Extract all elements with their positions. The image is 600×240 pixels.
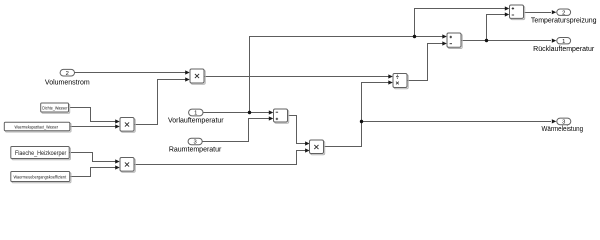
arrowhead into S1 in1 <box>269 110 274 114</box>
wire Flaeche_Heizkoerper to product P3 in1 <box>69 153 116 162</box>
svg-text:Flaeche_Heizkoerper: Flaeche_Heizkoerper <box>15 150 67 157</box>
junction node on Ruecklauf line <box>485 39 488 42</box>
wire Vorlauftemperatur to subtract S1 in1 <box>203 112 269 114</box>
svg-text:1: 1 <box>562 39 565 45</box>
wire product P1 out to product P2 in2 <box>134 80 186 125</box>
svg-text:3: 3 <box>562 120 565 126</box>
junction node on trunk line <box>413 35 416 38</box>
arrowhead into P4 in1 <box>305 141 310 145</box>
svg-text:Rücklauftemperatur: Rücklauftemperatur <box>533 46 595 53</box>
wire Dichte_Wasser to product P1 in1 <box>70 108 117 122</box>
arrowhead into P2 in2 <box>185 77 190 81</box>
outport 2 Temperaturspreizung <box>557 9 571 16</box>
arrowhead into S1 in2 <box>269 116 274 120</box>
svg-text:3: 3 <box>193 140 196 146</box>
wire product P2 out to divide D1 in1 <box>204 76 389 78</box>
svg-text:Vorlauftemperatur: Vorlauftemperatur <box>168 118 224 125</box>
inport 2 Volumenstrom <box>60 69 74 77</box>
subtract S1 (minus plus) <box>274 109 289 123</box>
wire subtract S1 out to product P4 in1 <box>288 116 306 144</box>
svg-text:Wärmeleistung: Wärmeleistung <box>542 126 584 133</box>
constant Dichte_Wasser <box>41 103 70 113</box>
arrowhead into P1 in1 <box>115 119 120 123</box>
arrowhead into P1 in2 <box>115 124 120 128</box>
product P4 (dT x kA) <box>310 140 325 155</box>
constant Flaeche_Heizkoerper <box>11 147 71 160</box>
arrowhead into S3 in2 <box>505 12 510 16</box>
wire Waermekapazitaet_Wasser to product P1 in2 <box>70 126 116 128</box>
wire sum S2 out to Ruecklauftemperatur outport <box>461 40 551 42</box>
svg-text:2: 2 <box>66 71 69 77</box>
wire branch to Waermeleistung outport <box>362 121 552 123</box>
outport 1 Ruecklauftemperatur <box>557 38 571 45</box>
wire product P4 out to divide D1 in2 <box>324 83 390 147</box>
arrowhead into D1 in2 <box>388 80 393 84</box>
svg-text:Dichte_Wasser: Dichte_Wasser <box>42 105 68 110</box>
svg-text:Temperaturspreizung: Temperaturspreizung <box>531 17 597 24</box>
divide D1 <box>393 74 408 89</box>
svg-text:Raumtemperatur: Raumtemperatur <box>169 146 222 153</box>
product P2 (Volumenstrom x cp*rho) <box>190 69 205 84</box>
inport 1 Vorlauftemperatur <box>189 109 203 117</box>
junction node on Vorlauftemperatur line <box>248 111 251 114</box>
arrowhead into P3 in1 <box>115 159 120 163</box>
svg-text:Waermeuebergangskoeffizient: Waermeuebergangskoeffizient <box>14 175 67 180</box>
svg-text:Waermekapazitaet_Wasser: Waermekapazitaet_Wasser <box>15 124 59 129</box>
sum S3 (Temperaturspreizung) <box>510 5 525 20</box>
junction node on Waermeleistung line <box>360 120 363 123</box>
arrowhead into P4 in2 <box>305 148 310 152</box>
arrowhead into Temperaturspreizung <box>552 10 557 14</box>
constant Waermeuebergangskoeffizient <box>11 172 71 183</box>
arrowhead into P3 in2 <box>115 165 120 169</box>
wire Volumenstrom to product P2 in1 <box>75 72 187 74</box>
sum S2 (Ruecklauf = Vorlauf - dTdrop) <box>447 33 462 49</box>
wire branch to sum S3 in1 <box>415 9 506 37</box>
arrowhead into Ruecklauftemperatur <box>552 39 557 43</box>
inport 3 Raumtemperatur <box>188 138 202 145</box>
wire Vorlauf trunk up to sum S2 in1 <box>250 37 444 113</box>
wire branch up to sum S3 in2 <box>487 15 506 41</box>
product P3 (Flaeche x Waermeuebergang) <box>120 158 135 173</box>
wire sum S3 out to Temperaturspreizung outport <box>524 12 552 14</box>
wire divide D1 out to sum S2 in2 <box>407 44 443 81</box>
arrowhead into P2 in1 <box>185 70 190 74</box>
arrowhead into D1 in1 <box>388 74 393 78</box>
svg-text:Volumenstrom: Volumenstrom <box>45 79 90 86</box>
arrowhead into S2 in1 <box>442 34 447 38</box>
wire Raumtemperatur to subtract S1 in2 <box>202 119 269 142</box>
svg-text:2: 2 <box>562 10 565 16</box>
wire product P3 out to product P4 in2 <box>134 151 306 165</box>
wire Waermeuebergangskoeffizient to product P3 in2 <box>70 168 116 177</box>
outport 3 Waermeleistung <box>557 118 571 126</box>
product P1 (Dichte x Waermekapazitaet) <box>120 118 135 133</box>
arrowhead into S2 in2 <box>442 41 447 45</box>
svg-text:1: 1 <box>194 111 197 117</box>
constant Waermekapazitaet_Wasser <box>4 122 71 132</box>
arrowhead into S3 in1 <box>505 6 510 10</box>
arrowhead into Waermeleistung <box>552 119 557 123</box>
